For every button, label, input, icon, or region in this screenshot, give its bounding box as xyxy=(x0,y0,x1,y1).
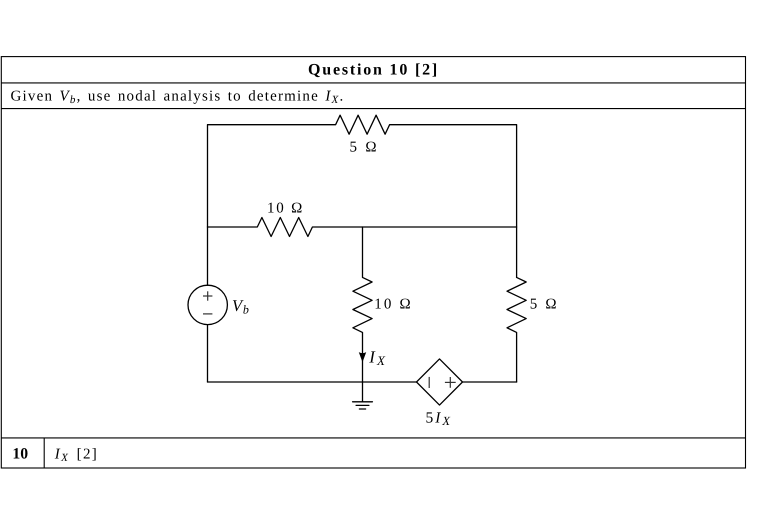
svg-text:10: 10 xyxy=(12,445,28,462)
svg-text:10 Ω: 10 Ω xyxy=(374,297,413,313)
svg-text:5IX: 5IX xyxy=(426,410,453,428)
svg-text:IX [2]: IX [2] xyxy=(54,447,98,464)
svg-text:5 Ω: 5 Ω xyxy=(350,140,379,156)
svg-text:Question 10 [2]: Question 10 [2] xyxy=(308,62,439,79)
svg-text:10 Ω: 10 Ω xyxy=(267,201,304,217)
svg-text:IX: IX xyxy=(368,347,387,368)
svg-text:5 Ω: 5 Ω xyxy=(530,297,559,313)
svg-text:Given Vb, use nodal analysis t: Given Vb, use nodal analysis to determin… xyxy=(11,88,345,105)
svg-text:Vb: Vb xyxy=(232,296,250,317)
